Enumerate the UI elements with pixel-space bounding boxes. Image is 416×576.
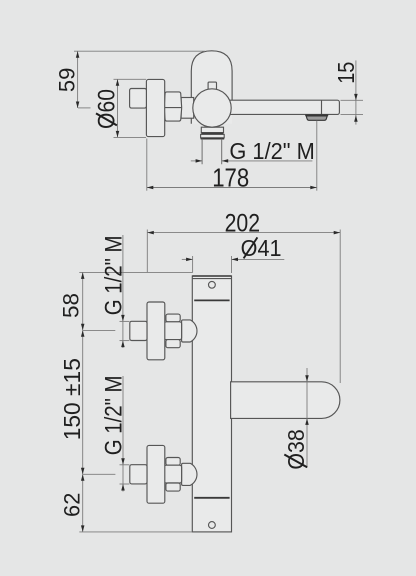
spout <box>228 100 340 114</box>
flange <box>147 302 165 360</box>
dim line 178 <box>147 187 317 189</box>
arrow up <box>81 272 85 279</box>
arrow up to stub bottom <box>121 484 125 491</box>
dimension 15 <box>332 60 363 124</box>
dim line vertical <box>122 235 124 348</box>
arrow pointing left <box>232 258 239 262</box>
svg-text:59: 59 <box>54 68 79 92</box>
mixer body circle <box>193 89 231 127</box>
dim tail left <box>182 258 193 260</box>
inlet stub <box>130 465 147 484</box>
ext line body top <box>79 271 192 273</box>
arrow pointing right <box>186 258 193 262</box>
hex nut top facet <box>166 314 180 322</box>
aerator cup <box>306 116 327 120</box>
arrow down <box>81 468 85 475</box>
body top edge accent <box>192 275 231 277</box>
bulge connector <box>182 463 197 485</box>
body <box>192 276 231 532</box>
ext line stub top <box>120 320 130 322</box>
arrow up <box>116 79 120 86</box>
ext line spout top <box>341 99 364 101</box>
dim line right under text <box>232 258 285 260</box>
ext line spout bottom <box>341 113 364 115</box>
lower seam <box>194 497 229 499</box>
arrow up to bottom edge <box>354 115 358 122</box>
svg-text:62: 62 <box>59 493 84 517</box>
arrow up to spout bottom <box>305 418 309 425</box>
inlet connector piece <box>181 98 194 119</box>
hex nut (side view) <box>164 92 182 121</box>
outlet collar dark band <box>201 133 223 135</box>
arrow up <box>81 474 85 481</box>
O38 diameter slash <box>284 455 307 468</box>
arrow right <box>334 231 341 235</box>
hex nut mid band <box>164 322 181 340</box>
svg-text:58: 58 <box>59 293 84 318</box>
outlet lower collar <box>201 134 225 137</box>
dim line vertical <box>306 368 308 468</box>
dimension 150 ±15 <box>59 330 115 474</box>
svg-text:O41: O41 <box>241 235 282 261</box>
ext line outlet axis <box>316 121 318 191</box>
ext line body left <box>192 256 194 273</box>
dim line 62 <box>82 474 84 532</box>
dim line 59 <box>77 51 79 108</box>
svg-text:202: 202 <box>225 209 260 237</box>
svg-text:G 1/2" M: G 1/2" M <box>229 137 314 164</box>
bulge connector <box>182 320 197 342</box>
dim line 202 <box>147 232 340 234</box>
svg-text:O38: O38 <box>283 429 309 469</box>
arrow down to top edge <box>354 94 358 101</box>
ext line handle top <box>74 50 205 52</box>
wall flange Ø60 <box>146 79 164 136</box>
ext tick upper axis <box>83 329 115 331</box>
svg-text:G 1/2" M: G 1/2" M <box>100 376 127 456</box>
aerator dark top <box>305 114 328 116</box>
O41 diameter slash <box>244 237 258 258</box>
ext line spout end <box>339 230 341 384</box>
arrow down to stub top <box>121 315 125 322</box>
outlet tube G 1/2 <box>202 139 222 165</box>
ext tick axis <box>78 107 91 109</box>
handle capsule <box>191 51 232 124</box>
leader right under text <box>222 160 313 162</box>
ext tick lower axis <box>83 473 115 475</box>
hex nut mid band <box>164 465 181 483</box>
arrow up to stub bottom <box>121 341 125 348</box>
ext line stub bottom <box>120 483 130 485</box>
dimension Ø41 <box>182 235 284 273</box>
ext line body right <box>231 256 233 273</box>
dim line vertical <box>122 376 124 492</box>
arrow left <box>147 231 154 235</box>
svg-text:150 ±15: 150 ±15 <box>59 358 85 440</box>
outlet collar <box>201 127 223 132</box>
svg-text:O60: O60 <box>93 89 120 129</box>
ext line flange left <box>146 230 148 273</box>
arrow left <box>222 159 229 163</box>
screw hole <box>209 281 216 288</box>
hex nut bottom facet <box>166 483 180 491</box>
dim line Ø60 <box>117 79 119 137</box>
dimension G 1/2 M (outlet) <box>191 137 315 164</box>
lower connection <box>130 445 197 503</box>
O60 diameter slash <box>96 113 117 125</box>
ext line flange top <box>114 78 147 80</box>
hex nut top facet <box>166 458 180 466</box>
dimension G 1/2 M lower inlet <box>100 376 130 492</box>
dimension 202 <box>147 209 340 383</box>
arrow up <box>81 330 85 337</box>
outlet collar bottom edge <box>201 138 225 140</box>
dim line 150 <box>82 330 84 474</box>
dimension Ø60 <box>93 79 146 137</box>
dimension G 1/2 M upper inlet <box>100 235 130 348</box>
dimension 58 <box>59 272 193 330</box>
svg-text:G 1/2" M: G 1/2" M <box>100 236 127 316</box>
svg-text:178: 178 <box>212 164 249 193</box>
flange <box>147 445 165 503</box>
dim line 58 <box>82 272 84 330</box>
ext line body bottom <box>79 531 192 533</box>
arrow up <box>76 51 80 58</box>
ext line stub top <box>120 464 130 466</box>
inlet stub <box>130 321 147 340</box>
dimension 62 <box>59 474 192 532</box>
arrow down <box>81 525 85 532</box>
dim line 15 <box>355 60 357 124</box>
arrow down to stub top <box>121 458 125 465</box>
arrow right <box>196 159 203 163</box>
svg-text:15: 15 <box>332 62 359 84</box>
handle pin tab <box>208 82 216 91</box>
arrow down <box>81 324 85 331</box>
ext line wall <box>146 139 148 191</box>
dimension 59 <box>54 51 205 108</box>
upper seam <box>194 299 229 301</box>
ext line flange bottom <box>114 136 147 138</box>
spout seam <box>321 100 323 114</box>
hex nut bottom facet <box>166 340 180 348</box>
bottom screw hole <box>209 522 216 529</box>
arrow left <box>147 186 154 190</box>
wall inlet stub <box>130 89 147 109</box>
dimension Ø38 <box>283 368 309 470</box>
upper connection <box>130 302 197 360</box>
arrow down <box>76 102 80 109</box>
cap band line <box>192 278 231 280</box>
ext line stub bottom <box>120 340 130 342</box>
arrow right <box>310 186 317 190</box>
spout (plan) <box>231 382 340 419</box>
hex nut mid line <box>164 107 182 109</box>
arrow down <box>116 131 120 138</box>
leader left <box>191 160 202 162</box>
arrow down to spout top <box>305 375 309 382</box>
dimension 178 <box>147 121 317 194</box>
